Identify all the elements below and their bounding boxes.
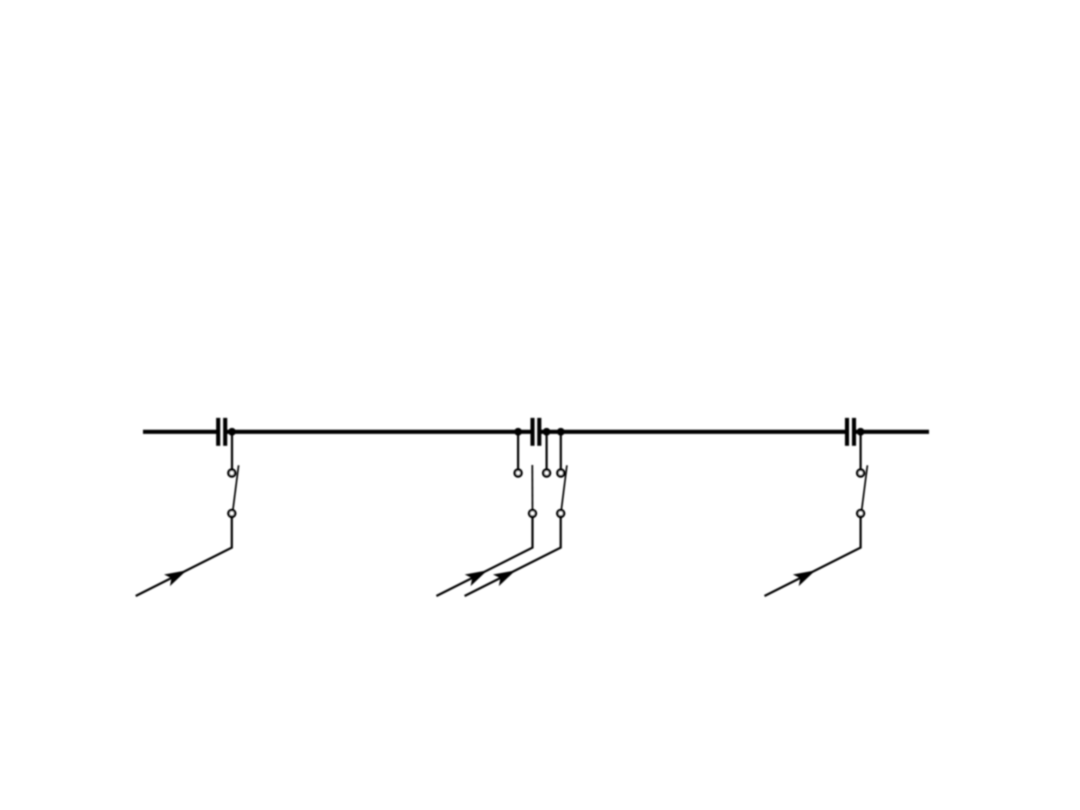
switch S1 hinge contact (open circle) (228, 510, 235, 517)
switch S4 hinge contact (open circle) (857, 510, 864, 517)
junction node C (bus / S2 right tap) (543, 428, 551, 436)
switch S3 hinge contact (open circle) (557, 510, 564, 517)
wire: bus segment right of capacitor 3 (854, 430, 929, 434)
wire: drop from node C to contact of switch S2 (545, 432, 547, 473)
junction node E (bus / S4 tap) (857, 428, 865, 436)
wire: S1 hinge lead with actuating rod to lower left (136, 513, 232, 596)
junction node A (bus / S1 tap) (228, 428, 236, 436)
arrowhead: S2 operating direction arrow (465, 570, 488, 586)
arrowhead: S3 operating direction arrow (493, 570, 516, 586)
switch S2 blade (open, between contacts) (531, 465, 533, 513)
wire: S4 hinge lead with actuating rod to lower left (765, 513, 861, 596)
arrowhead: S1 operating direction arrow (164, 570, 187, 586)
junction node D (bus / S3 tap) (557, 428, 565, 436)
switch S1 blade (disconnector, near closed) (233, 465, 239, 510)
wire: drop from node A to switch S1 fixed contact (231, 432, 233, 473)
switch S2 hinge contact (open circle) (529, 510, 536, 517)
wire: drop from node D to fixed contact of switch S3 (560, 432, 562, 473)
wire: bus segment between capacitor 2 and capacitor 3 (539, 430, 847, 434)
junction node B (bus / S2 left tap) (514, 428, 522, 436)
switch S1 fixed contact (open circle) (228, 470, 235, 477)
arrowhead: S4 operating direction arrow (793, 570, 816, 586)
switch S3 fixed contact (open circle) (557, 470, 564, 477)
capacitor 3 (series capacitor, right) (847, 418, 854, 446)
wire: S2 hinge lead with actuating rod to lower left (436, 513, 532, 596)
wire: drop from node E to fixed contact of switch S4 (859, 432, 861, 473)
switch S4 fixed contact (open circle) (857, 470, 864, 477)
capacitor 2 (series capacitor, middle) (533, 418, 540, 446)
capacitor 1 (series capacitor, left) (218, 418, 225, 446)
wire: drop from node B to contact of switch S2 (517, 432, 519, 473)
wire: bus segment left of capacitor 1 (143, 430, 218, 434)
switch S2 right fixed contact (open circle) (543, 470, 550, 477)
switch S2 left fixed contact (open circle) (515, 470, 522, 477)
wire: bus segment between capacitor 1 and capacitor 2 (225, 430, 532, 434)
wire: S3 hinge lead with actuating rod to lower left (465, 513, 561, 596)
switch S4 blade (disconnector, near closed) (862, 465, 868, 510)
switch S3 blade (disconnector, near closed) (561, 465, 567, 510)
